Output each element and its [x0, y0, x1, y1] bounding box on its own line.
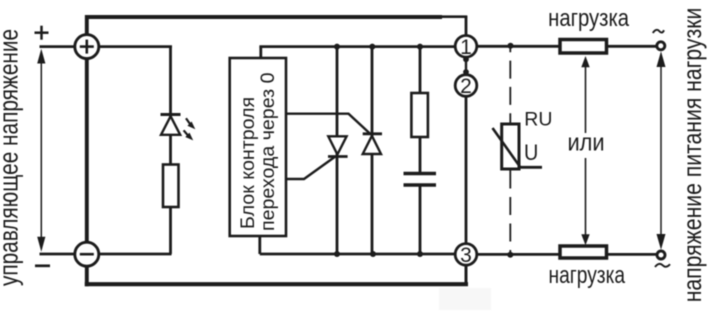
svg-text:перехода через 0: перехода через 0: [257, 72, 279, 231]
svg-text:3: 3: [460, 244, 472, 267]
svg-text:напряжение питания нагрузки: напряжение питания нагрузки: [679, 8, 708, 303]
svg-text:управляющее напряжение: управляющее напряжение: [0, 29, 23, 286]
svg-text:нагрузка: нагрузка: [548, 261, 625, 289]
svg-text:или: или: [567, 129, 604, 156]
svg-text:2: 2: [460, 75, 472, 98]
svg-text:RU: RU: [524, 108, 552, 130]
svg-text:1: 1: [460, 36, 472, 59]
svg-text:Блок контроля: Блок контроля: [237, 97, 259, 229]
svg-text:U: U: [524, 141, 538, 165]
svg-text:нагрузка: нагрузка: [548, 4, 630, 31]
